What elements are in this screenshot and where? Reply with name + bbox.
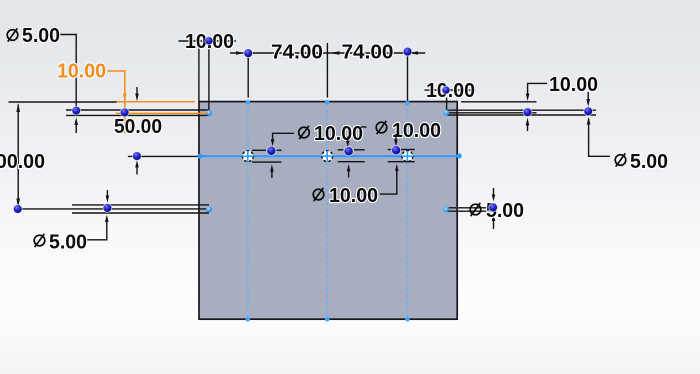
svg-text:10.00: 10.00: [426, 80, 475, 102]
svg-text:5.00: 5.00: [49, 232, 87, 254]
cyan endpoint bottom col3: [405, 317, 410, 322]
vertex point col3: [403, 47, 412, 56]
dimension text d5.00 bottom-left: [34, 232, 87, 254]
tick after text A: [361, 126, 367, 128]
cyan endpoint bottom col1: [246, 317, 251, 322]
svg-text:10.00: 10.00: [329, 185, 378, 207]
svg-text:10.00: 10.00: [57, 61, 106, 83]
svg-text:74.00: 74.00: [271, 42, 323, 64]
extension line from point col1: [247, 57, 249, 98]
arrow down above point B2: [106, 190, 110, 203]
dimension text d5.00 bottom-right: [470, 200, 524, 222]
bracket point 3: [388, 150, 415, 162]
bottom-right row line lower: [448, 210, 491, 212]
dimension 10.00 top-right line: [425, 89, 476, 91]
d10.00 text A: [299, 123, 363, 145]
construction line column 2: [326, 103, 328, 319]
leader d10 C up to point 3: [380, 168, 397, 194]
top row point B: [120, 108, 129, 117]
arrow up below BR point: [492, 214, 496, 229]
svg-text:5.00: 5.00: [630, 151, 668, 173]
bottom-right hole point: [489, 203, 498, 212]
cyan endpoint top col3: [405, 101, 410, 106]
selected point right bottom: [443, 206, 449, 212]
dimension line 74.00 pair: [230, 52, 425, 54]
extension line from point col3: [407, 55, 409, 101]
right hole point 2: [584, 107, 593, 116]
bracket point 2: [338, 150, 365, 178]
hole point mid 3: [392, 146, 401, 155]
bracket point 1: [252, 150, 282, 178]
selected point right top: [443, 110, 449, 116]
right hole point 1: [523, 108, 532, 117]
svg-text:10.00: 10.00: [314, 123, 363, 145]
leader of diameter 5.00 top-left: [57, 35, 76, 107]
leader B down to point 3: [395, 134, 397, 140]
svg-text:50.00: 50.00: [114, 116, 162, 138]
mid-left point: [133, 152, 142, 161]
leader d5.00 bottom-left with up arrow: [87, 219, 107, 240]
selected centerline: [200, 155, 460, 157]
merged point node 2: [322, 151, 333, 162]
selected point left top: [206, 110, 212, 116]
vertex point col1: [244, 49, 253, 58]
leader d10 A to point 1: [273, 133, 294, 140]
bottom-left point 2: [103, 204, 112, 213]
merged point node 3: [402, 151, 413, 162]
hole point mid 1: [267, 146, 276, 155]
leader d5.00 right: [589, 119, 610, 156]
svg-text:10.00: 10.00: [392, 120, 441, 142]
svg-text:5.00: 5.00: [22, 25, 60, 47]
cyan line left endpoint: [197, 154, 202, 159]
merged point node 1: [242, 151, 253, 162]
cyan line right endpoint: [457, 153, 462, 158]
cyan endpoint top col2: [325, 100, 330, 105]
bottom-left row upper line: [72, 204, 209, 206]
row 1 extension line lower: [66, 114, 209, 116]
top edge extension line left: [9, 101, 117, 103]
d10.00 text C: [313, 185, 378, 207]
dimension 100.00 vertical line: [16, 103, 20, 208]
arrow up under right point 1: [526, 118, 530, 131]
arrow down above BR point: [492, 188, 496, 201]
row 1 extension line upper: [66, 109, 209, 111]
leader 10.00 far right: [528, 83, 547, 94]
grip point on 10.00: [205, 37, 213, 45]
svg-text:74.00: 74.00: [342, 42, 394, 64]
plate body: [199, 102, 457, 320]
arrow down above right point 2: [586, 92, 590, 107]
svg-text:10.00: 10.00: [549, 74, 598, 96]
svg-text:100.00: 100.00: [0, 151, 45, 173]
top row point A: [72, 106, 81, 115]
arrow down above point 2: [346, 141, 350, 147]
extension line to hole column: [208, 49, 210, 113]
right row line mid: [448, 112, 537, 114]
cyan endpoint bottom col2: [325, 317, 330, 322]
construction line column 3: [406, 103, 408, 319]
arrow down at x137: [135, 87, 139, 101]
dimension 10.00 top line: [179, 40, 237, 42]
extension line to corner: [198, 49, 200, 102]
dimension text d5.00 top-left: [7, 25, 60, 47]
arrow up under mid-left point: [135, 160, 139, 174]
construction line column 1: [247, 103, 249, 319]
grip point on 10.00 right: [442, 86, 450, 94]
dimension text d5.00 right: [615, 151, 668, 173]
top edge extension right: [461, 101, 537, 103]
right row line lower: [448, 114, 597, 116]
extension line col2 for 74.00: [326, 43, 328, 98]
cyan endpoint top col1: [246, 100, 251, 105]
orange dimension 10.00 leader: [108, 71, 125, 134]
selected point left bottom: [206, 206, 212, 212]
right row line upper: [448, 109, 597, 111]
d10.00 text B: [376, 120, 441, 142]
orange extension line top: [117, 101, 195, 103]
bottom-left row lower line: [72, 212, 209, 214]
orange extension line row: [116, 112, 206, 114]
bottom-right row line upper: [448, 207, 491, 209]
arrow up under point A: [74, 117, 78, 133]
left mid row line: [128, 155, 198, 157]
bottom-left point 1: [13, 205, 22, 214]
hole point mid 2: [344, 147, 353, 156]
extension to hole col right: [446, 98, 448, 112]
bottom-left row center line: [15, 208, 209, 210]
